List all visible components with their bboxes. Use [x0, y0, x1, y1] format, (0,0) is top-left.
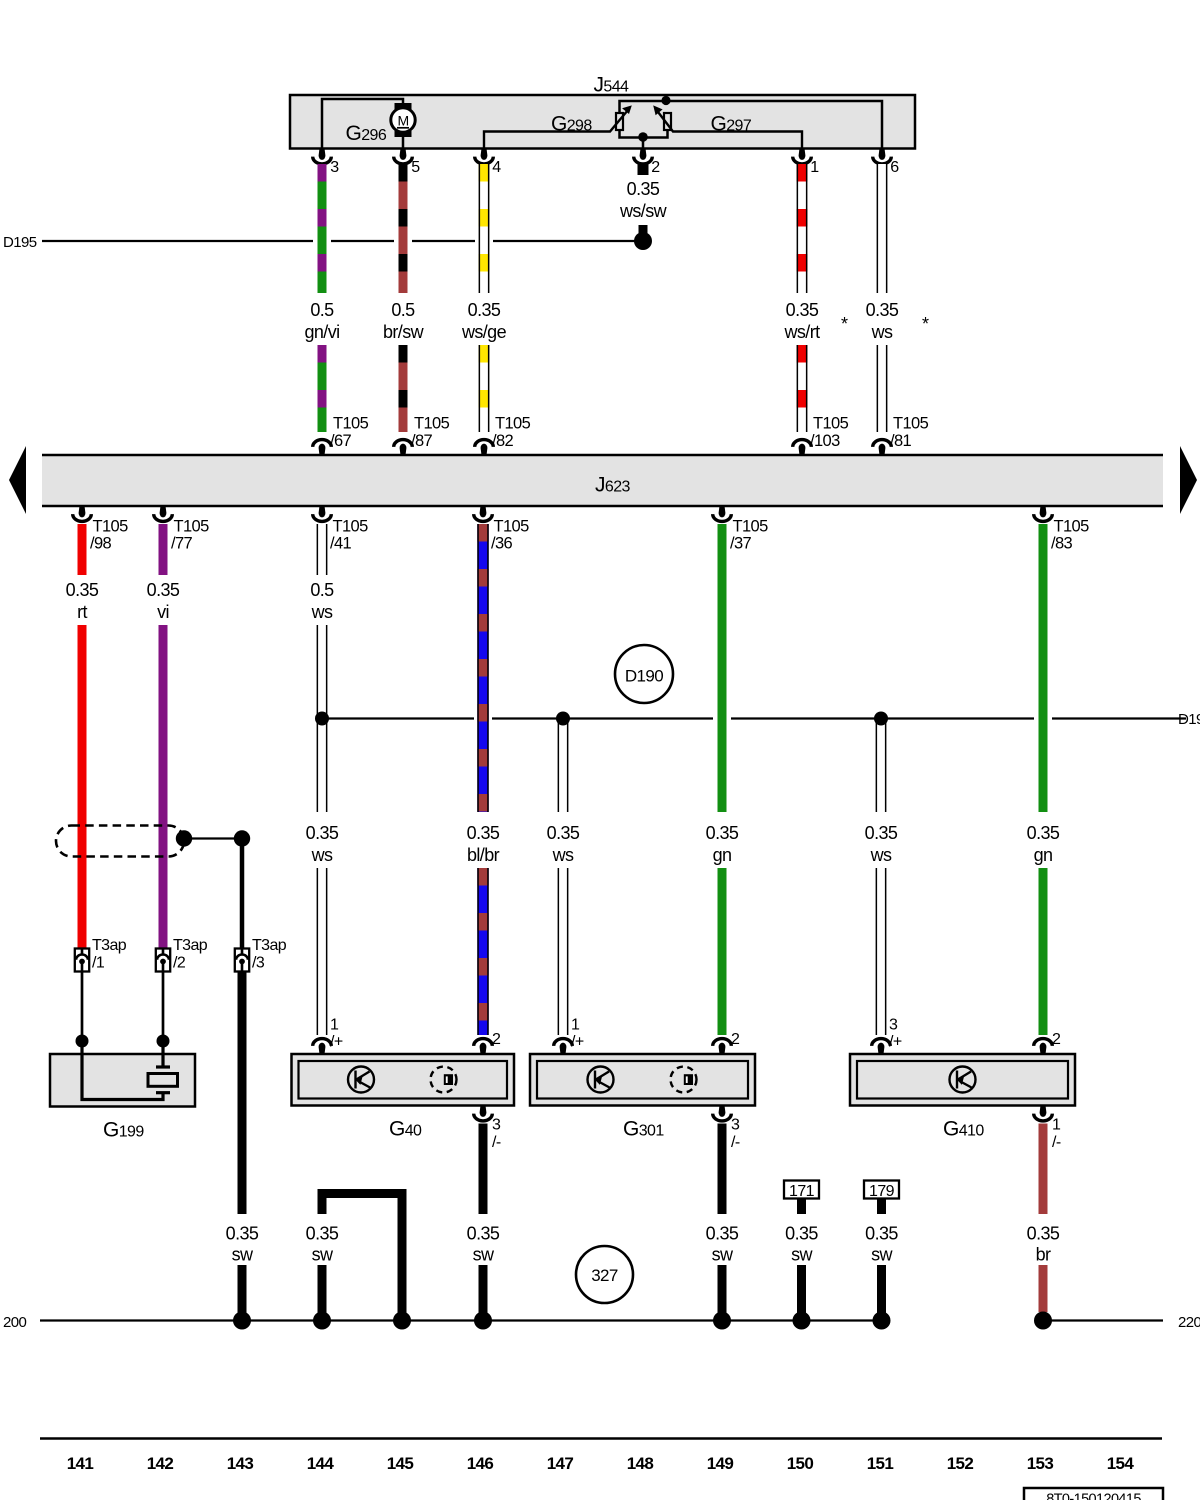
svg-text:153: 153	[1027, 1454, 1054, 1473]
svg-text:J544: J544	[594, 74, 630, 97]
connector T105 /77 below J623	[154, 505, 173, 521]
svg-text:0.35: 0.35	[66, 580, 99, 600]
svg-text:0.35: 0.35	[467, 1224, 500, 1244]
wire sw from 171 upper	[797, 1199, 806, 1215]
terminal number 6 of J544	[890, 159, 899, 176]
svg-text:T105: T105	[174, 518, 210, 536]
sensor G410 box	[850, 1054, 1075, 1106]
junction at G199 pin 1	[76, 1035, 89, 1048]
svg-text:/+: /+	[571, 1034, 584, 1051]
svg-text:sw: sw	[871, 1245, 893, 1265]
svg-text:T105: T105	[893, 415, 929, 433]
wire sw loop label	[306, 1224, 339, 1265]
svg-text:T105: T105	[414, 415, 450, 433]
connector pin 1 of G410	[1034, 1105, 1053, 1121]
wire shield to T3ap/3	[184, 837, 242, 839]
svg-text:152: 152	[947, 1454, 974, 1473]
ground net line 200	[40, 1319, 883, 1321]
svg-text:0.5: 0.5	[310, 580, 334, 600]
svg-text:3: 3	[889, 1017, 898, 1034]
wire rt label	[66, 580, 99, 622]
svg-text:/+: /+	[889, 1034, 902, 1051]
ground junction at 483	[474, 1312, 492, 1330]
ground junction at 801.5	[793, 1312, 811, 1330]
connector pin 2 of G301	[713, 1039, 732, 1055]
connector pin 3 of G410	[872, 1039, 891, 1055]
svg-text:rt: rt	[77, 602, 87, 622]
wire sw loop label gap mask	[316, 1214, 329, 1265]
ground junction at 322	[313, 1312, 331, 1330]
potentiometer loop top wire	[620, 101, 883, 148]
svg-text:5: 5	[411, 159, 420, 176]
terminal label 2 of G40	[492, 1031, 501, 1048]
wire rt upper segment	[78, 524, 87, 575]
svg-text:*: *	[922, 314, 929, 334]
svg-text:/83: /83	[1051, 535, 1073, 553]
svg-text:0.35: 0.35	[226, 1224, 259, 1244]
svg-text:2: 2	[731, 1031, 740, 1048]
label T105 /67	[330, 415, 369, 450]
terminal label 3/- of G301	[731, 1117, 740, 1152]
svg-text:/+: /+	[330, 1034, 343, 1051]
wire - motor bottom to terminal 5	[402, 137, 405, 148]
svg-text:/41: /41	[330, 535, 352, 553]
svg-text:T3ap: T3ap	[92, 937, 127, 954]
sensor G199 box	[50, 1054, 195, 1107]
svg-text:220: 220	[1178, 1314, 1200, 1331]
wire sw 171 label	[785, 1224, 818, 1265]
svg-text:D195: D195	[3, 234, 37, 251]
wire ws D190 to G301 lower	[558, 868, 569, 1035]
wire ws lower segment	[877, 345, 888, 432]
svg-text:vi: vi	[157, 602, 169, 622]
svg-text:G410: G410	[943, 1118, 984, 1141]
svg-text:gn: gn	[1034, 845, 1053, 865]
reluctor symbol in G40	[431, 1067, 457, 1093]
wire br/sw lower segment	[399, 345, 408, 432]
svg-text:150: 150	[787, 1454, 814, 1473]
terminal number 2 of J544	[651, 159, 660, 176]
wire sw from G40 upper	[479, 1124, 488, 1215]
svg-text:/98: /98	[90, 535, 112, 553]
net line D195	[42, 240, 635, 242]
svg-text:4: 4	[492, 159, 501, 176]
svg-text:T105: T105	[333, 518, 369, 536]
connector T105 /83 below J623	[1034, 505, 1053, 521]
svg-text:T3ap: T3ap	[252, 937, 287, 954]
svg-text:G40: G40	[389, 1118, 422, 1141]
connector T3ap/1	[75, 949, 89, 972]
label J623	[595, 474, 631, 497]
label G298	[551, 113, 592, 136]
hall symbol in G410	[950, 1067, 976, 1093]
continuation arrow right	[1180, 446, 1197, 514]
label T105 /77	[171, 518, 209, 553]
label T105 /36	[491, 518, 529, 553]
wire sw loop bridge	[322, 1194, 402, 1321]
svg-text:0.35: 0.35	[1027, 1224, 1060, 1244]
svg-text:148: 148	[627, 1454, 654, 1473]
svg-text:bl/br: bl/br	[467, 845, 500, 865]
terminal label 2 of G301	[731, 1031, 740, 1048]
connector T105 /36 below J623	[474, 505, 493, 521]
wire vi lower segment	[159, 625, 168, 949]
wire sw from G301 upper	[718, 1124, 727, 1215]
svg-text:171: 171	[789, 1183, 815, 1200]
label G410	[943, 1118, 984, 1141]
label T105 /98	[90, 518, 128, 553]
connector T105 /87 above J623	[394, 440, 413, 456]
svg-text:327: 327	[591, 1266, 618, 1285]
ground junction at 1043	[1034, 1312, 1052, 1330]
terminal number 1 of J544	[810, 159, 819, 176]
connector pin 1 of J544	[793, 148, 812, 164]
svg-text:0.35: 0.35	[706, 1224, 739, 1244]
label T105 /81	[890, 415, 929, 450]
svg-text:149: 149	[707, 1454, 734, 1473]
svg-text:0.35: 0.35	[785, 1224, 818, 1244]
document number box	[1024, 1488, 1163, 1500]
svg-text:2: 2	[492, 1031, 501, 1048]
svg-text:sw: sw	[791, 1245, 813, 1265]
wiring bus J623 box	[42, 455, 1163, 506]
wire vi label	[147, 580, 180, 622]
wire ws/ge upper segment	[479, 164, 490, 293]
label T3ap/1	[92, 937, 127, 972]
terminal label 1/+ of G301	[571, 1017, 584, 1051]
svg-text:ws/ge: ws/ge	[461, 322, 507, 342]
svg-text:3: 3	[492, 1117, 501, 1134]
wire rt lower segment	[78, 625, 87, 949]
label T105 /41	[330, 518, 368, 553]
connector pin 2 of J544	[634, 148, 653, 164]
wire bl/br lower segment	[477, 868, 488, 1035]
svg-text:/36: /36	[491, 535, 513, 553]
wire ws D190 to G410 lower	[876, 868, 887, 1035]
crystal bottom plate	[156, 1091, 170, 1094]
connector T105 /82 above J623	[475, 440, 494, 456]
junction shield drain	[234, 830, 250, 846]
wire sw from T3ap/3 lower	[238, 1265, 247, 1320]
junction shield end	[176, 830, 192, 846]
svg-text:0.35: 0.35	[306, 1224, 339, 1244]
wire ws lower segment to G40	[317, 868, 328, 1035]
svg-text:ws: ws	[552, 845, 574, 865]
svg-text:sw: sw	[232, 1245, 254, 1265]
junction D190 at ws wire	[315, 712, 329, 726]
hall symbol in G40	[348, 1067, 374, 1093]
svg-text:M: M	[397, 113, 408, 129]
wire sw from 171 lower	[797, 1265, 806, 1320]
svg-text:ws: ws	[311, 602, 333, 622]
wire vi upper segment	[159, 524, 168, 575]
resistor body G297	[664, 113, 671, 130]
svg-text:154: 154	[1107, 1454, 1135, 1473]
wire gn/vi lower segment	[318, 345, 327, 432]
connector pin 4 of J544	[475, 148, 494, 164]
wire drain down to T3ap/3	[240, 839, 245, 950]
svg-text:144: 144	[307, 1454, 335, 1473]
wire ws 0.5 label	[310, 580, 334, 622]
connector pin 2 of G40	[474, 1039, 493, 1055]
svg-text:sw: sw	[473, 1245, 495, 1265]
terminal label 1/- of G410	[1052, 1117, 1061, 1152]
connector pin 5 of J544	[394, 148, 413, 164]
hall symbol in G301	[588, 1067, 614, 1093]
svg-text:/-: /-	[731, 1134, 740, 1151]
label T3ap/3	[252, 937, 287, 972]
ground junction at 881.5	[873, 1312, 891, 1330]
svg-text:T105: T105	[1054, 518, 1090, 536]
asterisk ws	[922, 314, 929, 334]
connector pin 6 of J544	[873, 148, 892, 164]
net label D195	[3, 234, 37, 251]
svg-text:0.35: 0.35	[786, 300, 819, 320]
svg-text:0.35: 0.35	[306, 823, 339, 843]
wire - pot bottom junction to terminal 2	[642, 138, 645, 149]
svg-text:/82: /82	[492, 432, 514, 450]
wire gn to G410 lower	[1039, 868, 1048, 1035]
wire sw from 179 upper	[877, 1199, 886, 1215]
svg-text:/3: /3	[252, 955, 265, 972]
wire ws 0.35 label	[306, 823, 339, 865]
terminal number 3 of J544	[330, 159, 339, 176]
terminal label 2 of G410	[1052, 1031, 1061, 1048]
sensor G40 box	[292, 1054, 515, 1106]
potentiometer loop bottom wire	[620, 131, 668, 138]
svg-text:gn: gn	[713, 845, 732, 865]
svg-text:ws/sw: ws/sw	[619, 201, 668, 221]
wire ws/sw stub below terminal 2	[638, 163, 649, 175]
terminal number 4 of J544	[492, 159, 501, 176]
svg-text:ws/rt: ws/rt	[784, 322, 821, 342]
svg-text:/87: /87	[411, 432, 433, 450]
svg-text:3: 3	[731, 1117, 740, 1134]
wire br/sw upper segment	[399, 164, 408, 293]
svg-text:0.35: 0.35	[1027, 823, 1060, 843]
label T105 /82	[492, 415, 531, 450]
ruler line	[40, 1437, 1162, 1440]
svg-text:ws: ws	[871, 322, 893, 342]
junction at G199 pin 2	[157, 1035, 170, 1048]
wire ws/sw stub above node	[639, 225, 648, 235]
svg-text:ws: ws	[870, 845, 892, 865]
ground reference box 179	[864, 1181, 899, 1201]
wire sw G301 label	[706, 1224, 739, 1265]
connector T105 /37 below J623	[713, 505, 732, 521]
net label 220	[1178, 1314, 1200, 1331]
svg-text:0.35: 0.35	[147, 580, 180, 600]
net circle 327	[576, 1246, 633, 1303]
junction D190 at G410 ws wire	[874, 712, 888, 726]
wire sw from G301 lower	[718, 1265, 727, 1320]
node D195 junction	[634, 232, 652, 250]
wire ws D190 to G410 upper	[876, 718, 887, 812]
svg-text:D190: D190	[625, 667, 663, 686]
wire ws label	[866, 300, 899, 342]
wire br from G410 upper	[1039, 1124, 1048, 1215]
svg-text:/-: /-	[1052, 1134, 1061, 1151]
connector T105 /103 above J623	[793, 440, 812, 456]
svg-text:147: 147	[547, 1454, 574, 1473]
svg-text:146: 146	[467, 1454, 494, 1473]
svg-text:0.35: 0.35	[468, 300, 501, 320]
wire - terminal 3 to motor top	[322, 99, 403, 148]
svg-text:0.35: 0.35	[706, 823, 739, 843]
connector pin 3 of G301	[713, 1105, 732, 1121]
svg-text:/81: /81	[890, 432, 912, 450]
ruler numbers 141-154	[67, 1454, 1135, 1473]
label T3ap/2	[173, 937, 208, 972]
wire ws upper segment	[877, 164, 888, 293]
wire gn/vi upper segment	[318, 164, 327, 293]
svg-text:/1: /1	[92, 955, 105, 972]
label T105 /83	[1051, 518, 1089, 553]
sensor G301 box	[530, 1054, 755, 1106]
junction D190 at G301 ws wire	[556, 712, 570, 726]
svg-text:1: 1	[330, 1017, 339, 1034]
svg-text:143: 143	[227, 1454, 254, 1473]
wire bl/br upper segment	[477, 524, 488, 812]
wire gn/vi label	[304, 300, 339, 342]
terminal label 3/+ of G410	[889, 1017, 902, 1051]
ground junction at 402	[393, 1312, 411, 1330]
connector T3ap/2	[156, 949, 170, 972]
svg-text:179: 179	[869, 1183, 895, 1200]
ground junction at 722	[713, 1312, 731, 1330]
shield around rt and vi wires	[56, 826, 184, 857]
wire inside G199 pin2 to crystal top	[161, 1041, 164, 1067]
connector pin 2 of G410	[1034, 1039, 1053, 1055]
wire gn G301 label	[706, 823, 739, 865]
svg-text:T105: T105	[813, 415, 849, 433]
wire ws/sw label	[619, 179, 668, 221]
svg-text:0.35: 0.35	[865, 823, 898, 843]
svg-text:2: 2	[1052, 1031, 1061, 1048]
svg-text:6: 6	[890, 159, 899, 176]
svg-text:T3ap: T3ap	[173, 937, 208, 954]
net line D190	[322, 717, 1186, 719]
wire ws D190 to G301 upper	[558, 718, 569, 812]
svg-text:/67: /67	[330, 432, 352, 450]
svg-text:/77: /77	[171, 535, 193, 553]
svg-text:0.5: 0.5	[391, 300, 415, 320]
ground reference box 171	[784, 1181, 819, 1201]
junction node bottom of potentiometers	[638, 132, 648, 142]
svg-text:1: 1	[1052, 1117, 1061, 1134]
svg-text:T105: T105	[733, 518, 769, 536]
connector pin 3 of G40	[474, 1105, 493, 1121]
resistor body G298	[616, 113, 623, 130]
wire sw from G40 lower	[479, 1265, 488, 1320]
motor G296	[391, 103, 415, 137]
svg-text:1: 1	[571, 1017, 580, 1034]
wire bl/br label	[467, 823, 500, 865]
svg-text:0.35: 0.35	[865, 1224, 898, 1244]
svg-text:0.5: 0.5	[310, 300, 334, 320]
label T105 /37	[730, 518, 768, 553]
svg-text:br/sw: br/sw	[383, 322, 425, 342]
wire ws/rt lower segment	[797, 345, 808, 432]
connector T105 /81 above J623	[873, 440, 892, 456]
svg-text:G199: G199	[103, 1119, 144, 1142]
junction node top of potentiometers	[661, 96, 670, 105]
svg-text:200: 200	[3, 1314, 26, 1331]
reluctor symbol in G301	[671, 1067, 697, 1093]
svg-text:8T0-150120415: 8T0-150120415	[1046, 1492, 1141, 1500]
net label 200	[3, 1314, 26, 1331]
svg-text:G301: G301	[623, 1118, 664, 1141]
ground net line 220	[1043, 1319, 1163, 1321]
wire ws middle segment	[317, 625, 328, 812]
label G301	[623, 1118, 664, 1141]
connector T105 /41 below J623	[313, 505, 332, 521]
svg-text:D190: D190	[1178, 711, 1200, 728]
label T105 /87	[411, 415, 450, 450]
wiper arrow G298 with wire from terminal 4	[484, 105, 632, 148]
label G296	[346, 122, 387, 145]
crystal top plate	[156, 1065, 170, 1068]
svg-text:0.35: 0.35	[866, 300, 899, 320]
svg-text:gn/vi: gn/vi	[304, 322, 339, 342]
svg-text:/103: /103	[810, 432, 840, 450]
wire gn to G301 upper	[718, 524, 727, 812]
svg-text:/-: /-	[492, 1134, 501, 1151]
wire ws G301 label	[547, 823, 580, 865]
asterisk ws/rt	[841, 314, 848, 334]
svg-text:0.35: 0.35	[547, 823, 580, 843]
label G297	[711, 113, 752, 136]
connector T105 /98 below J623	[73, 505, 92, 521]
svg-text:0.35: 0.35	[467, 823, 500, 843]
ground junction at 242	[233, 1312, 251, 1330]
continuation arrow left	[9, 446, 26, 514]
svg-text:*: *	[841, 314, 848, 334]
control unit J544 box	[290, 95, 915, 149]
connector pin 1 of G40	[313, 1039, 332, 1055]
svg-text:T105: T105	[495, 415, 531, 433]
label T105 /103	[810, 415, 849, 450]
svg-text:T105: T105	[93, 518, 129, 536]
svg-text:ws: ws	[311, 845, 333, 865]
wire ws/rt label	[784, 300, 821, 342]
svg-text:145: 145	[387, 1454, 414, 1473]
terminal label 1/+ of G40	[330, 1017, 343, 1051]
crystal body	[148, 1074, 178, 1087]
wire sw from T3ap/3 upper	[238, 972, 247, 1215]
wire ws G410 label	[865, 823, 898, 865]
connector T3ap/3	[235, 949, 249, 972]
svg-text:sw: sw	[312, 1245, 334, 1265]
wire ws/ge lower segment	[479, 345, 490, 432]
svg-text:3: 3	[330, 159, 339, 176]
wire inside G199 pin1 to crystal bottom	[82, 1041, 163, 1100]
svg-text:/37: /37	[730, 535, 752, 553]
net circle D190	[615, 645, 673, 703]
wiper arrow G297 with wire from terminal 1	[653, 105, 802, 148]
wire T3ap/2 to G199	[162, 972, 165, 1042]
wire br G410 label	[1027, 1224, 1060, 1265]
svg-text:T105: T105	[333, 415, 369, 433]
svg-text:1: 1	[810, 159, 819, 176]
wire br/sw label	[383, 300, 425, 342]
svg-text:0.35: 0.35	[627, 179, 660, 199]
wire ws 0.5 upper segment	[317, 524, 328, 575]
wire gn to G410 upper	[1039, 524, 1048, 812]
svg-text:2: 2	[651, 159, 660, 176]
wire br from G410 lower	[1039, 1265, 1048, 1312]
control unit J544 label	[594, 74, 630, 97]
